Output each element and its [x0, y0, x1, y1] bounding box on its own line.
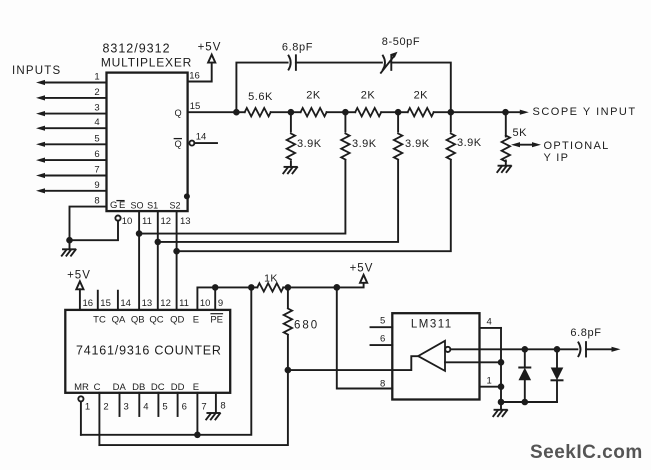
resistor R11 680 — [284, 287, 319, 370]
svg-text:8: 8 — [94, 196, 99, 207]
wire counter pin 13 label — [142, 298, 153, 309]
svg-text:2: 2 — [94, 87, 99, 98]
ground (mux enable) — [62, 240, 76, 256]
wire net clock horizontal — [99, 370, 288, 445]
svg-text:OPTIONAL: OPTIONAL — [544, 140, 610, 152]
svg-text:+5V: +5V — [198, 42, 222, 54]
svg-text:G: G — [110, 200, 117, 211]
svg-text:13: 13 — [142, 298, 153, 309]
wire LM311 pin 4 — [480, 317, 502, 328]
op-amp U3 LM311 — [392, 313, 479, 399]
wire input pin 9 — [36, 180, 107, 194]
wire output to scope — [451, 111, 506, 113]
wire counter pin 1 MR to net — [78, 396, 90, 435]
node junction S1 — [155, 239, 162, 246]
wire counter pin 7 to MR net — [197, 393, 206, 435]
svg-text:4: 4 — [94, 117, 99, 128]
node junction mux-ground — [66, 237, 73, 244]
svg-text:4: 4 — [143, 402, 148, 413]
svg-text:5.6K: 5.6K — [248, 91, 273, 103]
svg-text:9: 9 — [94, 180, 99, 191]
wire LM311 pin 6 stub — [371, 334, 393, 346]
svg-text:15: 15 — [190, 101, 201, 112]
svg-text:QD: QD — [170, 315, 184, 326]
node junction balance/bus — [498, 359, 505, 366]
svg-text:5: 5 — [162, 402, 167, 413]
node junction Q — [233, 109, 240, 116]
wire net S0 horizontal to R7 — [139, 160, 345, 233]
node INPUTS label — [12, 65, 61, 77]
svg-text:Y IP: Y IP — [544, 152, 570, 164]
node junction output/D1 — [522, 346, 529, 353]
node junction pin7/MR — [194, 432, 201, 439]
wire counter pin 15 stub — [98, 291, 111, 310]
node junction 1K left — [248, 284, 255, 291]
counter U2 74161/9316 — [65, 310, 230, 393]
node junction LM311 V+ tap — [333, 284, 340, 291]
wire mux pin 8 to ground net — [70, 196, 107, 241]
svg-text:7: 7 — [201, 402, 206, 413]
svg-text:QA: QA — [112, 315, 126, 326]
svg-text:DA: DA — [113, 382, 127, 393]
svg-text:680: 680 — [294, 320, 319, 332]
wire counter pin 6 stub — [178, 393, 187, 416]
resistor R10 1K — [251, 273, 288, 292]
svg-text:1: 1 — [487, 375, 492, 386]
wire select S1 vertical (mux pin 12 to counter pin 12) — [158, 211, 171, 310]
svg-text:SCOPE Y INPUT: SCOPE Y INPUT — [533, 106, 637, 118]
resistor R9 3.9K — [447, 112, 482, 159]
svg-text:3.9K: 3.9K — [297, 138, 322, 150]
wire counter pin 3 stub — [120, 393, 129, 416]
svg-text:S1: S1 — [147, 201, 158, 211]
wire select S2 vertical (mux pin 13 to counter pin 11) — [177, 211, 191, 310]
wire input pin 5 — [36, 133, 107, 147]
svg-text:DD: DD — [171, 382, 185, 393]
node junction PE/9 — [212, 284, 219, 291]
watermark SeekIC.com — [530, 442, 643, 464]
wire top feedback rail mid segment — [296, 62, 382, 64]
svg-text:16: 16 — [189, 71, 200, 82]
svg-text:2K: 2K — [306, 90, 321, 102]
node junction D (R9 tap) — [448, 109, 455, 116]
wire net S1 horizontal to R8 — [158, 160, 398, 242]
diode D2 (anode up) — [552, 349, 563, 402]
svg-text:9: 9 — [218, 298, 223, 309]
svg-text:2K: 2K — [361, 90, 376, 102]
wire 680 to comparator input — [288, 356, 418, 370]
wire mux pin 16 to +5V — [188, 63, 212, 82]
wire counter pin 14 stub — [118, 291, 131, 310]
ground (LM311) — [493, 402, 507, 416]
wire counter pin 2 clock stub — [99, 393, 108, 445]
wire LM311 pin 5 stub — [371, 316, 393, 328]
svg-text:74161/9316 COUNTER: 74161/9316 COUNTER — [76, 344, 222, 358]
multiplexer U1 8312/9312 — [101, 42, 192, 212]
resistor R7 3.9K — [341, 112, 377, 159]
svg-text:3: 3 — [124, 402, 129, 413]
svg-text:6.8pF: 6.8pF — [282, 42, 313, 54]
svg-text:DC: DC — [151, 382, 165, 393]
svg-text:MULTIPLEXER: MULTIPLEXER — [101, 56, 192, 70]
wire comparator output — [450, 348, 577, 350]
svg-text:DB: DB — [132, 382, 145, 393]
wire +5V rail to arrow — [288, 283, 364, 287]
wire net S2 horizontal to R9 — [177, 160, 451, 251]
wire input pin 4 — [36, 117, 107, 131]
svg-text:1K: 1K — [264, 273, 278, 285]
wire mux Qbar pin 14 stub — [189, 131, 217, 145]
wire counter pins 10 and 9 to 1K — [197, 287, 251, 310]
svg-text:5: 5 — [380, 316, 385, 327]
svg-text:6: 6 — [380, 334, 385, 345]
wire counter pin 12 label — [160, 298, 171, 309]
wire LM311 pin 1 — [480, 375, 502, 386]
svg-text:LM311: LM311 — [411, 319, 453, 331]
wire counter pin 4 stub — [139, 393, 148, 416]
svg-text:8312/9312: 8312/9312 — [102, 42, 170, 56]
wire comparator balance line — [445, 361, 501, 363]
capacitor C1 6.8pF — [282, 42, 313, 70]
node junction bus bottom — [498, 399, 505, 406]
power +5V (counter) — [67, 270, 93, 310]
power +5V (mux) — [198, 42, 222, 63]
wire mux Q output pin 15 — [188, 101, 237, 112]
svg-text:E: E — [193, 315, 199, 326]
node junction E (5K tap) — [502, 109, 509, 116]
wire counter pin 5 stub — [158, 393, 167, 416]
wire select S0 vertical (mux pin 11 to counter pin 13) — [139, 211, 152, 310]
svg-text:+5V: +5V — [67, 270, 91, 282]
node junction S2 — [173, 248, 180, 255]
svg-text:+5V: +5V — [350, 263, 374, 275]
svg-text:16: 16 — [83, 298, 94, 309]
resistor R4 2K — [398, 90, 451, 117]
svg-text:15: 15 — [100, 298, 111, 309]
resistor R1 5.6K — [236, 91, 291, 116]
svg-text:3: 3 — [94, 103, 99, 114]
wire counter pin 8 to ground — [216, 393, 226, 412]
node junction S0 — [136, 230, 143, 237]
capacitor C3 6.8pF output — [570, 327, 601, 357]
wire input pin 1 — [36, 72, 107, 86]
node junction B (R7 tap) — [342, 109, 349, 116]
wire top feedback rail right segment — [391, 63, 451, 113]
svg-text:8: 8 — [220, 401, 225, 412]
svg-text:Q: Q — [175, 108, 182, 118]
wire net MR horizontal — [81, 287, 251, 434]
ground (R6) — [283, 167, 297, 173]
wire input pin 6 — [36, 149, 107, 163]
svg-text:INPUTS: INPUTS — [12, 65, 61, 77]
svg-text:3.9K: 3.9K — [457, 137, 482, 149]
diode D1 (anode down) — [519, 349, 530, 402]
svg-text:QC: QC — [149, 315, 163, 326]
svg-text:6.8pF: 6.8pF — [570, 327, 601, 339]
svg-text:2K: 2K — [414, 90, 429, 102]
wire scope arrow — [506, 106, 637, 118]
node junction D1 bottom — [522, 399, 529, 406]
svg-text:QB: QB — [131, 315, 145, 326]
svg-text:3.9K: 3.9K — [405, 138, 430, 150]
svg-text:3.9K: 3.9K — [352, 138, 377, 150]
svg-text:C: C — [94, 382, 101, 393]
svg-text:13: 13 — [180, 216, 191, 227]
wire diode bottom return — [501, 401, 557, 403]
svg-text:10: 10 — [122, 216, 133, 227]
svg-text:5K: 5K — [513, 127, 528, 139]
resistor R3 2K — [345, 90, 398, 117]
svg-text:7: 7 — [94, 165, 99, 176]
svg-text:12: 12 — [160, 298, 171, 309]
svg-text:8: 8 — [380, 378, 385, 389]
svg-text:PE: PE — [210, 315, 223, 326]
svg-text:TC: TC — [93, 315, 106, 326]
power +5V (LM311) — [350, 263, 374, 283]
svg-text:E: E — [193, 382, 199, 393]
svg-text:6: 6 — [94, 149, 99, 160]
ground (counter pin 8) — [206, 413, 220, 419]
wire input pin 3 — [36, 103, 107, 117]
node junction mux edge S2 — [184, 193, 190, 199]
svg-text:12: 12 — [161, 216, 172, 227]
wire right bus vertical — [500, 328, 502, 402]
svg-text:6: 6 — [182, 402, 187, 413]
node junction 680 bottom — [285, 367, 292, 374]
wire LM311 pin 8 V+ — [337, 287, 393, 389]
wire mux pin 10 enable to ground — [70, 216, 133, 241]
node junction output/D2 — [554, 346, 561, 353]
node junction pin1/bus — [498, 383, 505, 390]
svg-text:MR: MR — [74, 382, 89, 393]
svg-text:14: 14 — [196, 131, 207, 142]
capacitor C2 8-50pF trimmer — [381, 36, 420, 73]
svg-text:11: 11 — [179, 298, 189, 309]
wire input pin 2 — [36, 87, 107, 101]
svg-text:SO: SO — [130, 201, 143, 211]
wire pot wiper to optional — [511, 140, 610, 164]
resistor R6 3.9K to ground — [287, 112, 322, 167]
svg-text:8-50pF: 8-50pF — [382, 36, 420, 48]
svg-text:1: 1 — [94, 72, 99, 83]
resistor R2 2K — [291, 90, 346, 117]
wire top feedback rail left segment — [236, 63, 287, 113]
svg-text:1: 1 — [85, 402, 90, 413]
svg-text:10: 10 — [200, 298, 211, 309]
svg-text:4: 4 — [487, 317, 492, 328]
svg-text:5: 5 — [94, 133, 99, 144]
node junction A (R6 tap) — [288, 109, 295, 116]
svg-text:Q: Q — [175, 139, 182, 149]
svg-text:11: 11 — [142, 216, 152, 227]
node junction 1K right / 680 top — [285, 284, 292, 291]
node junction C (R8 tap) — [395, 109, 402, 116]
resistor R8 3.9K — [394, 112, 430, 159]
svg-text:S2: S2 — [169, 201, 180, 211]
wire input pin 7 — [36, 165, 107, 179]
svg-text:14: 14 — [120, 298, 131, 309]
resistor R5 5K pot — [502, 112, 528, 166]
wire output arrow — [586, 347, 621, 352]
svg-text:E: E — [119, 200, 125, 211]
wire counter pin 11 label — [179, 298, 189, 309]
svg-text:2: 2 — [103, 402, 108, 413]
ground (R5) — [497, 166, 511, 172]
